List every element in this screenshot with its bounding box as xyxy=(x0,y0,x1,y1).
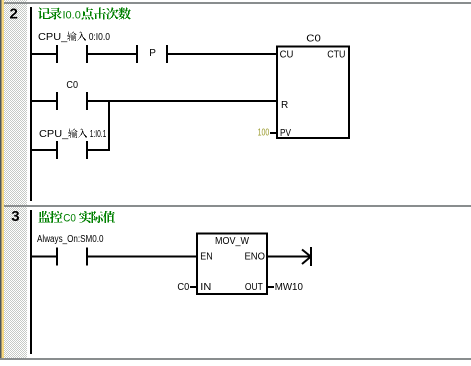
svg-text:EN: EN xyxy=(200,252,212,263)
svg-text:MOV_W: MOV_W xyxy=(215,236,250,247)
svg-text:Always_On:SM0.0: Always_On:SM0.0 xyxy=(37,234,104,245)
svg-text:IN: IN xyxy=(200,282,211,293)
svg-text:C0: C0 xyxy=(177,282,189,293)
svg-text:C0: C0 xyxy=(306,34,321,45)
svg-text:PV: PV xyxy=(280,128,291,139)
svg-text:2: 2 xyxy=(10,6,18,23)
svg-text:100: 100 xyxy=(258,128,270,139)
svg-text:R: R xyxy=(281,100,288,111)
svg-text:MW10: MW10 xyxy=(275,282,304,293)
svg-text:CPU_: CPU_ xyxy=(38,32,68,43)
svg-text:0:I0.0: 0:I0.0 xyxy=(89,32,111,43)
svg-text:CTU: CTU xyxy=(327,50,345,61)
svg-text:OUT: OUT xyxy=(245,282,263,293)
svg-text:ENO: ENO xyxy=(245,252,266,263)
svg-text:3: 3 xyxy=(11,208,19,225)
svg-text:CU: CU xyxy=(280,50,294,61)
svg-text:C0: C0 xyxy=(63,213,76,225)
svg-text:P: P xyxy=(149,48,156,59)
svg-text:C0: C0 xyxy=(66,80,78,91)
svg-text:I0.0: I0.0 xyxy=(63,10,81,22)
svg-text:CPU_: CPU_ xyxy=(39,129,69,140)
svg-text:1:I0.1: 1:I0.1 xyxy=(90,129,107,140)
